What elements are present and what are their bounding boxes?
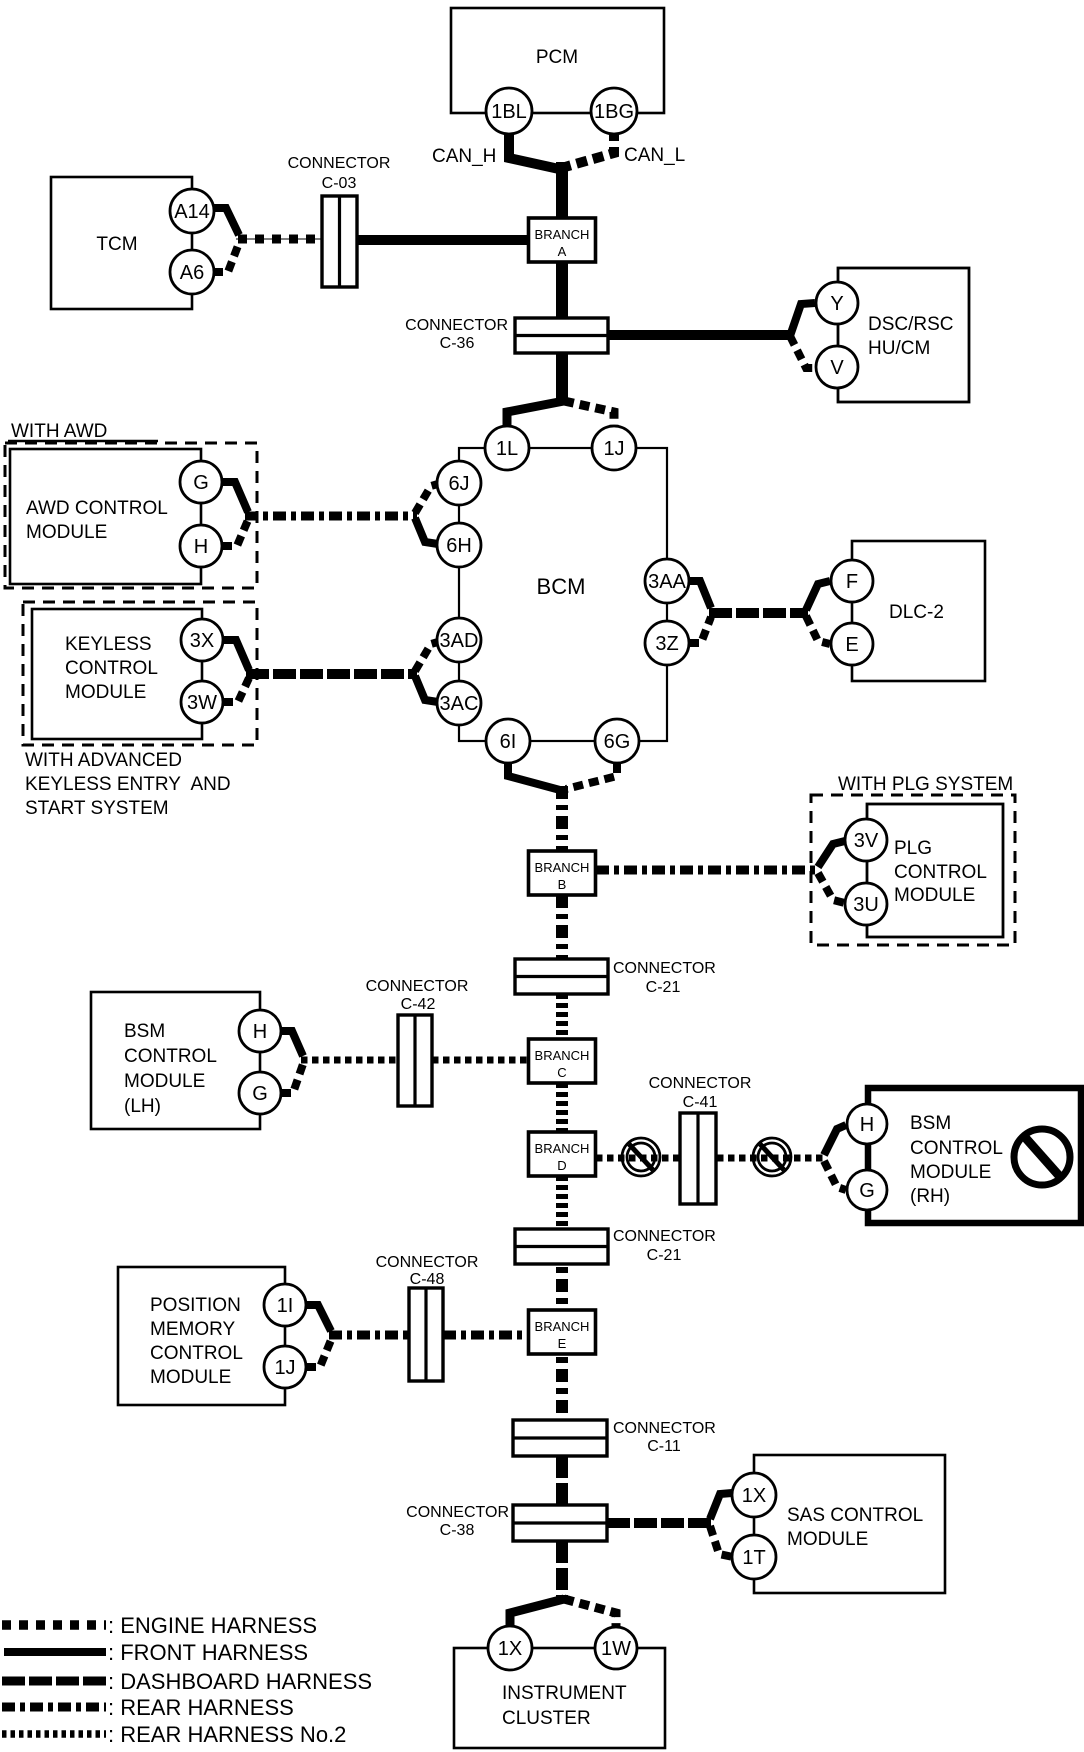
svg-text:INSTRUMENT: INSTRUMENT xyxy=(502,1683,627,1704)
svg-text:C-48: C-48 xyxy=(410,1271,445,1288)
wire cluster junction to pin 1W (dashed) xyxy=(564,1599,616,1627)
svg-text:MODULE: MODULE xyxy=(910,1162,991,1183)
pin A6 of TCM xyxy=(170,250,214,294)
junction BRANCH A xyxy=(529,218,596,262)
module BCM xyxy=(459,448,667,741)
svg-text:START SYSTEM: START SYSTEM xyxy=(25,798,169,819)
svg-text:DSC/RSC: DSC/RSC xyxy=(868,314,954,335)
svg-text:3AA: 3AA xyxy=(648,571,686,593)
wire pin 3W to keyless junction (dashed) xyxy=(223,678,249,702)
svg-text:6I: 6I xyxy=(500,731,517,753)
svg-text:3X: 3X xyxy=(190,630,214,652)
svg-text:CONTROL: CONTROL xyxy=(894,862,987,883)
pin H of BSM LH xyxy=(239,1010,281,1052)
svg-text:CONNECTOR: CONNECTOR xyxy=(376,1254,479,1271)
wire BRANCH D to connector C-21 lower (rear harness No.2, fine dash vertical) xyxy=(556,1176,568,1230)
pin G of BSM RH xyxy=(847,1170,887,1210)
note WITH PLG SYSTEM xyxy=(838,774,1013,795)
svg-text:SAS CONTROL: SAS CONTROL xyxy=(787,1505,923,1526)
svg-text:1J: 1J xyxy=(274,1357,295,1379)
svg-text:MODULE: MODULE xyxy=(65,682,146,703)
junction BRANCH E xyxy=(529,1310,596,1354)
svg-text:1BG: 1BG xyxy=(594,101,634,123)
legend: rear harness No.2 sample (fine dash) xyxy=(2,1730,106,1738)
svg-text:(LH): (LH) xyxy=(124,1096,161,1117)
svg-text:1L: 1L xyxy=(496,438,518,460)
svg-text:MODULE: MODULE xyxy=(124,1071,205,1092)
wire keyless junction to BCM (dashboard harness, long dash) xyxy=(246,669,417,679)
svg-text:C-21: C-21 xyxy=(646,979,681,996)
wire BRANCH B to PLG module (rear harness, dash-dot) xyxy=(596,866,820,875)
wire CAN_L from pin 1BG to node bus (dashed) xyxy=(565,130,614,167)
pin F of DLC-2 xyxy=(831,560,873,602)
wire BRANCH D to BSM RH (rear harness No.2, dotted) xyxy=(596,1155,824,1162)
note WITH ADVANCED KEYLESS ENTRY AND START SYSTEM xyxy=(25,750,231,819)
svg-text:CONNECTOR: CONNECTOR xyxy=(613,1228,716,1245)
note WITH AWD xyxy=(8,421,158,442)
wire C-11 to C-38 (dashboard harness vertical) xyxy=(556,1456,568,1506)
svg-text:E: E xyxy=(845,634,858,656)
svg-text:1J: 1J xyxy=(603,438,624,460)
wire from pin A6 to TCM junction (dashed) xyxy=(213,243,239,272)
pin 1J of position memory module xyxy=(264,1346,306,1388)
svg-text:CONTROL: CONTROL xyxy=(150,1343,243,1364)
wire BRANCH B to connector C-21 (dash-dot vertical) xyxy=(556,895,568,960)
wire connector C-36 to DSC junction (front harness) xyxy=(608,330,792,340)
svg-text:BSM: BSM xyxy=(910,1113,951,1134)
svg-text:A6: A6 xyxy=(180,262,204,284)
wire pin 6G to bottom junction (dashed) xyxy=(566,763,617,789)
connector C-41 xyxy=(649,1075,752,1204)
module POSITION MEMORY CONTROL MODULE xyxy=(118,1267,285,1405)
svg-text:WITH AWD: WITH AWD xyxy=(11,421,107,442)
wire to pin 3V (solid) xyxy=(818,841,845,867)
wire C-38 down to cluster junction (dashboard harness vertical) xyxy=(556,1541,568,1600)
wire to pin G of BSM RH (dashed) xyxy=(824,1161,846,1190)
svg-text:C-03: C-03 xyxy=(322,175,357,192)
svg-text:PLG: PLG xyxy=(894,838,932,859)
svg-text:3Z: 3Z xyxy=(655,633,678,655)
svg-text:H: H xyxy=(253,1021,267,1043)
module PLG CONTROL MODULE xyxy=(867,804,1003,937)
svg-text:CONNECTOR: CONNECTOR xyxy=(613,960,716,977)
svg-text:HU/CM: HU/CM xyxy=(868,338,930,359)
wire BRANCH A to connector C-36 (front harness) xyxy=(556,262,568,320)
pin Y of DSC/RSC xyxy=(816,282,858,324)
svg-text:BRANCH: BRANCH xyxy=(535,1048,590,1063)
svg-text:CONNECTOR: CONNECTOR xyxy=(366,978,469,995)
svg-text:CONTROL: CONTROL xyxy=(124,1046,217,1067)
connector C-21 (upper) xyxy=(515,959,716,996)
svg-text:WITH ADVANCED: WITH ADVANCED xyxy=(25,750,182,771)
svg-text:1W: 1W xyxy=(601,1638,631,1660)
legend: rear harness sample (dash-dot) xyxy=(2,1703,106,1712)
module DSC/RSC HU/CM xyxy=(838,268,969,402)
pin 3W of keyless module xyxy=(181,681,223,723)
svg-text:AWD CONTROL: AWD CONTROL xyxy=(26,498,168,519)
module PCM xyxy=(451,8,664,113)
svg-text:3AD: 3AD xyxy=(440,630,479,652)
pin H of AWD module xyxy=(180,525,222,567)
module SAS CONTROL MODULE xyxy=(754,1455,945,1593)
pin 6G of BCM xyxy=(595,719,639,763)
module BSM CONTROL MODULE (LH) xyxy=(91,992,260,1129)
wire AWD junction to BCM (rear harness, dash-dot) xyxy=(245,512,417,521)
wire connector C-36 down to BCM junction (front harness) xyxy=(556,353,568,404)
wire TCM junction to connector C-03 (engine harness, dotted) xyxy=(236,238,322,240)
svg-text:: ENGINE HARNESS: : ENGINE HARNESS xyxy=(108,1613,317,1638)
svg-text:C-11: C-11 xyxy=(647,1438,681,1455)
wire C-21 to BRANCH C (rear harness No.2, fine dash vertical) xyxy=(556,994,568,1040)
wire to pin E (dashed) xyxy=(806,616,830,644)
svg-text:CONTROL: CONTROL xyxy=(910,1138,1003,1159)
svg-text:CAN_L: CAN_L xyxy=(624,145,685,166)
svg-text:PCM: PCM xyxy=(536,47,578,68)
svg-text:Y: Y xyxy=(830,293,843,315)
pin 6J of BCM xyxy=(437,461,481,505)
option box PLG (dashed) xyxy=(811,795,1015,945)
option box WITH AWD (dashed) xyxy=(5,443,257,588)
wire connector C-03 to BRANCH A (front harness) xyxy=(357,235,531,245)
svg-text:C-36: C-36 xyxy=(440,335,475,352)
svg-text:CONTROL: CONTROL xyxy=(65,658,158,679)
wire to pin 6J (dashed) xyxy=(415,484,438,513)
svg-text:MODULE: MODULE xyxy=(894,885,975,906)
legend: front harness sample (solid) xyxy=(4,1648,106,1656)
svg-text:H: H xyxy=(194,536,208,558)
wire to pin H of BSM RH (solid) xyxy=(824,1125,846,1155)
svg-text:MEMORY: MEMORY xyxy=(150,1319,235,1340)
svg-text:MODULE: MODULE xyxy=(26,522,107,543)
pin A14 of TCM xyxy=(170,189,214,233)
module BSM CONTROL MODULE (RH), thick border xyxy=(868,1088,1081,1223)
no-connect symbol right of C-41 xyxy=(753,1138,791,1176)
svg-text:WITH PLG SYSTEM: WITH PLG SYSTEM xyxy=(838,774,1013,795)
pin 3AD of BCM xyxy=(437,618,481,662)
wire BRANCH C to BRANCH D (rear harness No.2, fine dash vertical) xyxy=(556,1083,568,1133)
wire to pin 3AD (dashed) xyxy=(415,642,438,671)
pin G of AWD module xyxy=(180,461,222,503)
pin 1T of SAS xyxy=(732,1535,776,1579)
connector C-11 xyxy=(513,1420,716,1456)
svg-text:G: G xyxy=(193,472,209,494)
svg-text:TCM: TCM xyxy=(96,234,137,255)
no-connect symbol left of C-41 xyxy=(622,1138,660,1176)
svg-text:6J: 6J xyxy=(448,473,469,495)
svg-text:: REAR HARNESS No.2: : REAR HARNESS No.2 xyxy=(108,1722,346,1747)
svg-text:H: H xyxy=(860,1114,874,1136)
wire connector C-42 to BRANCH C (rear harness No.2, dotted) xyxy=(432,1057,531,1064)
pin 1I of position memory module xyxy=(264,1284,306,1326)
module TCM xyxy=(51,177,192,309)
svg-text:KEYLESS: KEYLESS xyxy=(65,634,152,655)
svg-text:C-42: C-42 xyxy=(401,996,436,1013)
svg-text:BRANCH: BRANCH xyxy=(535,1319,590,1334)
svg-text:6H: 6H xyxy=(446,535,472,557)
pin 3U of PLG module xyxy=(845,883,887,925)
wire to pin 1X of SAS (solid) xyxy=(710,1493,732,1519)
svg-text:1T: 1T xyxy=(742,1547,765,1569)
wire to pin 3AC (solid) xyxy=(415,676,438,702)
svg-text:MODULE: MODULE xyxy=(787,1529,868,1550)
svg-text:: REAR HARNESS: : REAR HARNESS xyxy=(108,1695,294,1720)
svg-text:CONNECTOR: CONNECTOR xyxy=(288,155,391,172)
pin 3Z of BCM xyxy=(645,621,689,665)
wire C-21 lower to BRANCH E (dash-dot vertical) xyxy=(556,1267,568,1311)
wire pin H to BSM LH junction (solid) xyxy=(281,1031,303,1056)
junction BRANCH D xyxy=(529,1132,596,1176)
wire C-38 to SAS junction (dashboard harness, long dash) xyxy=(607,1518,712,1528)
legend: engine harness sample (dotted) xyxy=(2,1620,106,1630)
connector C-38 xyxy=(406,1504,607,1541)
svg-text:A: A xyxy=(558,244,567,259)
pin 1X of instrument cluster xyxy=(488,1626,532,1670)
wire DSC junction to pin V (dashed) xyxy=(790,336,815,368)
svg-text:1X: 1X xyxy=(498,1638,522,1660)
svg-text:CONNECTOR: CONNECTOR xyxy=(649,1075,752,1092)
svg-text:C: C xyxy=(557,1065,566,1080)
svg-text:BSM: BSM xyxy=(124,1021,165,1042)
wire BCM junction to pin 1L (solid) xyxy=(507,401,564,427)
pin 1X of SAS xyxy=(732,1473,776,1517)
svg-text:G: G xyxy=(252,1083,268,1105)
junction BRANCH B xyxy=(529,851,596,895)
svg-text:KEYLESS ENTRY AND: KEYLESS ENTRY AND xyxy=(25,774,231,795)
svg-text:3AC: 3AC xyxy=(440,693,479,715)
connector C-48 xyxy=(376,1254,479,1381)
wire BCM to DLC-2 (dashboard harness, long dash) xyxy=(709,608,808,618)
wire bus junction to BRANCH B (dash-dot vertical) xyxy=(556,786,568,852)
pin 1BL of PCM xyxy=(486,88,532,134)
pin 1W of instrument cluster xyxy=(595,1627,637,1669)
svg-text:DLC-2: DLC-2 xyxy=(889,602,944,623)
wire from pin A14 to TCM junction (solid) xyxy=(213,208,239,235)
wire junction to connector C-48 (rear harness, dash-dot) xyxy=(329,1331,409,1340)
svg-text:POSITION: POSITION xyxy=(150,1295,241,1316)
svg-text:1X: 1X xyxy=(742,1485,766,1507)
svg-text:G: G xyxy=(859,1180,875,1202)
svg-text:C-21: C-21 xyxy=(647,1247,682,1264)
wire CAN_H from pin 1BL to node bus (front harness, solid) xyxy=(509,130,559,169)
svg-text:CAN_H: CAN_H xyxy=(432,146,496,167)
legend: dashboard harness sample (long dash) xyxy=(2,1677,106,1686)
pin 3AA of BCM xyxy=(645,559,689,603)
pin H of BSM RH xyxy=(847,1104,887,1144)
svg-text:C-38: C-38 xyxy=(440,1522,475,1539)
pin 3AC of BCM xyxy=(437,681,481,725)
svg-text:1I: 1I xyxy=(277,1295,294,1317)
wire BRANCH E to connector C-11 (dash-dot vertical) xyxy=(556,1357,568,1421)
svg-text:BRANCH: BRANCH xyxy=(535,860,590,875)
svg-text:1BL: 1BL xyxy=(491,101,527,123)
svg-text:CONNECTOR: CONNECTOR xyxy=(613,1420,716,1437)
module INSTRUMENT CLUSTER xyxy=(454,1648,665,1748)
svg-text:MODULE: MODULE xyxy=(150,1367,231,1388)
svg-text:BRANCH: BRANCH xyxy=(535,227,590,242)
svg-text:: DASHBOARD HARNESS: : DASHBOARD HARNESS xyxy=(108,1669,372,1694)
wire pin 1J to junction (dashed) xyxy=(306,1340,331,1367)
module KEYLESS CONTROL MODULE xyxy=(32,609,202,739)
wire pin 6I to bottom junction (solid) xyxy=(508,763,560,790)
module AWD CONTROL MODULE xyxy=(10,449,201,584)
wire BCM junction to pin 1J (dashed) xyxy=(564,401,614,427)
svg-text:CLUSTER: CLUSTER xyxy=(502,1708,591,1729)
connector C-42 xyxy=(366,978,469,1106)
connector C-03 xyxy=(288,155,391,287)
pin 1BG of PCM xyxy=(591,88,637,134)
wire to pin F (solid) xyxy=(806,581,830,610)
pin 1J of BCM xyxy=(592,426,636,470)
pin G of BSM LH xyxy=(239,1072,281,1114)
wire to pin 3U (dashed) xyxy=(818,873,845,903)
svg-text:D: D xyxy=(557,1158,566,1173)
pin V of DSC/RSC xyxy=(816,346,858,388)
wire pin 3Z to DLC junction (dashed) xyxy=(689,617,711,643)
wire connector C-48 to BRANCH E (rear harness, dash-dot) xyxy=(443,1331,531,1340)
connector C-36 xyxy=(405,317,608,353)
svg-text:BCM: BCM xyxy=(537,574,586,599)
svg-text:CONNECTOR: CONNECTOR xyxy=(406,1504,509,1521)
wire BSM LH junction to connector C-42 (rear harness No.2, dotted) xyxy=(301,1057,398,1064)
no-connect symbol inside BSM RH xyxy=(1014,1129,1070,1185)
svg-text:3U: 3U xyxy=(853,894,879,916)
svg-text:F: F xyxy=(846,571,858,593)
svg-text:CONNECTOR: CONNECTOR xyxy=(405,317,508,334)
wire pin H to AWD junction (dashed) xyxy=(222,520,248,546)
pin 6I of BCM xyxy=(486,719,530,763)
pin 1L of BCM xyxy=(485,426,529,470)
wire to pin 1T of SAS (dashed) xyxy=(710,1526,733,1557)
svg-text:: FRONT HARNESS: : FRONT HARNESS xyxy=(108,1640,308,1665)
svg-text:V: V xyxy=(830,357,844,379)
wire bus from CAN junction to BRANCH A (front harness) xyxy=(556,162,568,220)
module DLC-2 xyxy=(852,541,985,681)
svg-text:C-41: C-41 xyxy=(683,1094,718,1111)
option box keyless (dashed) xyxy=(23,602,257,745)
wire pin 3X to keyless junction (solid) xyxy=(223,640,249,670)
pin 3X of keyless module xyxy=(181,619,223,661)
svg-text:3V: 3V xyxy=(854,830,879,852)
wire cluster junction to pin 1X (solid) xyxy=(510,1599,564,1627)
wire to pin 6H (solid) xyxy=(415,518,438,544)
pin 6H of BCM xyxy=(437,523,481,567)
svg-text:(RH): (RH) xyxy=(910,1186,950,1207)
wire pin G to AWD junction (solid) xyxy=(222,482,248,512)
svg-text:E: E xyxy=(558,1336,567,1351)
wire pin 1I to junction (solid) xyxy=(306,1305,331,1331)
pin E of DLC-2 xyxy=(831,623,873,665)
svg-text:B: B xyxy=(558,877,567,892)
wire DSC junction to pin Y (solid) xyxy=(790,303,815,336)
wire pin 3AA to DLC junction (solid) xyxy=(689,581,711,608)
svg-text:6G: 6G xyxy=(604,731,631,753)
junction BRANCH C xyxy=(529,1039,596,1083)
wire pin G to BSM LH junction (dashed) xyxy=(281,1064,303,1093)
svg-text:A14: A14 xyxy=(174,201,210,223)
connector C-21 (lower) xyxy=(515,1228,716,1264)
svg-text:BRANCH: BRANCH xyxy=(535,1141,590,1156)
pin 3V of PLG module xyxy=(845,819,887,861)
svg-text:3W: 3W xyxy=(187,692,217,714)
